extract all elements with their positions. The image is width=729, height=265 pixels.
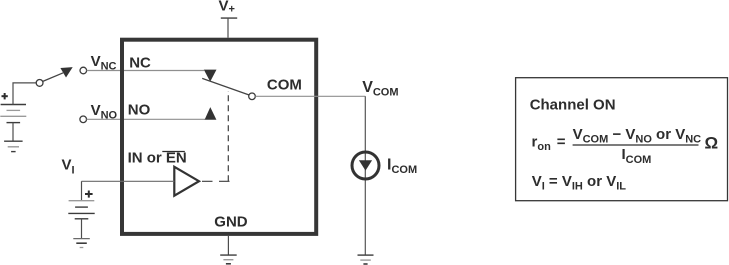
battery B2 bbox=[68, 201, 94, 219]
dashed control line bbox=[202, 91, 230, 181]
switch S1 pole bbox=[36, 80, 43, 87]
battery B1 bbox=[0, 105, 26, 123]
buffer driver A1 bbox=[174, 167, 199, 196]
wire B1 positive lead bbox=[13, 83, 36, 105]
ground (I_COM) bbox=[358, 255, 374, 264]
DUT box U1 bbox=[122, 40, 316, 234]
ground (B2) bbox=[73, 239, 90, 248]
svg-text:NC: NC bbox=[129, 54, 151, 71]
supply rail V+ bar bbox=[221, 17, 237, 19]
switch S1 blade bbox=[43, 73, 63, 82]
svg-text:GND: GND bbox=[214, 213, 248, 230]
svg-text:=: = bbox=[557, 133, 566, 150]
wire COM to V_COM bbox=[255, 95, 365, 97]
wire V_COM drop to current source and ground bbox=[364, 96, 366, 255]
svg-text:NO: NO bbox=[128, 102, 151, 119]
svg-text:Channel ON: Channel ON bbox=[530, 97, 616, 114]
formula fraction bar bbox=[573, 144, 699, 146]
wire NC bbox=[87, 70, 204, 72]
svg-text:ICOM: ICOM bbox=[622, 146, 652, 166]
svg-text:VI = VIH or VIL: VI = VIH or VIL bbox=[532, 173, 627, 193]
terminal V_NC bbox=[80, 67, 87, 74]
label + (B2 polarity) bbox=[85, 191, 93, 198]
current source I1 bbox=[352, 152, 379, 179]
label + (B1 polarity) bbox=[2, 93, 8, 99]
svg-text:ron: ron bbox=[532, 133, 552, 153]
wire GND bbox=[227, 236, 229, 255]
wire V+ bbox=[227, 18, 229, 38]
node COM (circle) bbox=[249, 93, 256, 100]
label IN or EN bbox=[128, 150, 187, 167]
switch S1 arrowhead bbox=[60, 67, 72, 77]
wire B1 negative lead bbox=[12, 123, 14, 142]
ground (GND pin) bbox=[220, 255, 237, 264]
svg-text:VNO: VNO bbox=[91, 102, 118, 122]
svg-text:VNC: VNC bbox=[91, 53, 117, 73]
wire B2 positive lead bbox=[81, 181, 83, 200]
svg-text:VI: VI bbox=[62, 157, 75, 177]
svg-text:VCOM − VNO or VNC: VCOM − VNO or VNC bbox=[573, 126, 702, 146]
annotation box: r_on formula bbox=[516, 78, 728, 201]
ground (B1) bbox=[4, 141, 23, 151]
svg-text:Ω: Ω bbox=[705, 134, 719, 153]
svg-text:IN or EN: IN or EN bbox=[128, 150, 187, 167]
svg-text:COM: COM bbox=[267, 76, 302, 93]
contact NO (triangle) bbox=[205, 107, 217, 120]
svg-text:ICOM: ICOM bbox=[387, 157, 417, 176]
svg-text:V+: V+ bbox=[219, 0, 235, 16]
wire IN bbox=[82, 180, 175, 182]
terminal V_NO bbox=[80, 116, 87, 123]
switch blade (COM side) bbox=[202, 78, 249, 95]
svg-text:VCOM: VCOM bbox=[362, 79, 398, 99]
contact NC (triangle) bbox=[204, 70, 217, 82]
wire B2 negative lead bbox=[81, 219, 83, 239]
wire NO bbox=[87, 118, 206, 120]
